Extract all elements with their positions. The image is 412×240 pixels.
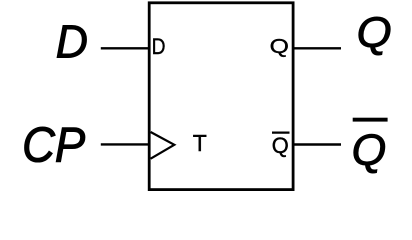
pin label D [152,35,166,59]
net label Q [357,9,392,57]
wire: D input [101,47,149,49]
pin label T [193,130,207,156]
wire: Q-bar output [293,143,341,145]
pin Q-bar overline [272,132,290,134]
net label CP [22,118,85,173]
pin label Q-bar [272,133,289,158]
wire: Q output [293,47,341,49]
svg-text:CP: CP [22,118,85,173]
net label Q-bar [352,127,387,176]
wire: CP clock input [101,143,149,145]
svg-text:D: D [56,16,88,68]
pin label Q [270,34,289,57]
svg-text:Q: Q [272,133,289,158]
svg-text:Q: Q [270,34,289,57]
svg-text:Q: Q [352,127,387,176]
net label D [56,16,88,68]
svg-text:T: T [193,130,207,156]
flip-flop body U1 [149,3,293,190]
svg-text:Q: Q [357,9,392,57]
clock edge triangle [151,132,175,159]
net Q-bar overline [353,118,388,122]
svg-text:D: D [152,35,166,59]
